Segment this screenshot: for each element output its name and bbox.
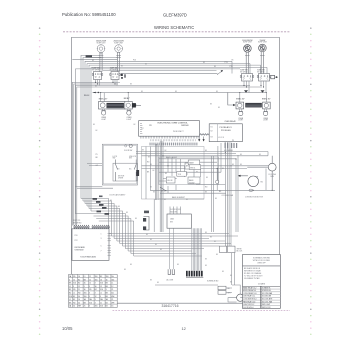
svg-text:L1: L1 — [73, 292, 75, 294]
door latch label — [110, 194, 127, 197]
svg-text:316: 316 — [100, 283, 103, 285]
svg-text:10/05: 10/05 — [62, 326, 73, 331]
svg-text:21: 21 — [84, 306, 86, 308]
svg-text:BK: BK — [203, 62, 205, 64]
broil element box — [185, 163, 194, 169]
warmer labels left — [99, 98, 130, 100]
U1 pin row — [140, 136, 198, 141]
svg-text:BK: BK — [92, 60, 94, 62]
svg-text:316: 316 — [73, 283, 76, 285]
svg-text:316: 316 — [95, 276, 98, 278]
junction dots — [162, 152, 272, 191]
ribbon zigzag — [200, 134, 232, 136]
header publication number — [62, 12, 116, 17]
svg-text:CODES: CODES — [258, 283, 266, 285]
svg-text:BK: BK — [222, 271, 224, 273]
svg-text:3: 3 — [89, 296, 90, 298]
svg-text:16: 16 — [111, 306, 113, 308]
left fold dotted line — [39, 27, 41, 335]
svg-text:L1: L1 — [84, 276, 86, 278]
svg-text:BK: BK — [240, 154, 242, 156]
svg-text:3400W: 3400W — [189, 182, 195, 184]
svg-text:3: 3 — [95, 299, 96, 301]
svg-text:3: 3 — [84, 286, 85, 288]
svg-text:SW: SW — [170, 222, 173, 224]
relay board U2 — [209, 120, 242, 142]
svg-text:16: 16 — [100, 279, 102, 281]
svg-text:3: 3 — [89, 292, 90, 294]
thermostat TOD — [177, 172, 187, 177]
svg-text:BK: BK — [130, 84, 132, 86]
svg-text:21: 21 — [78, 289, 80, 291]
svg-text:LIGHT SW 2-12: LIGHT SW 2-12 — [243, 304, 254, 306]
relay K1 — [188, 160, 200, 165]
wire labels on bus — [133, 59, 233, 68]
infinite switch S4 — [257, 70, 271, 82]
svg-text:16: 16 — [106, 279, 108, 281]
warmer element E4 — [263, 102, 271, 109]
svg-text:SURF UNIT: SURF UNIT — [243, 41, 252, 43]
svg-text:BK: BK — [150, 239, 152, 241]
oven circuit wires — [136, 141, 275, 232]
svg-text:316417716: 316417716 — [162, 304, 179, 308]
svg-text:KEYBOARD: KEYBOARD — [75, 246, 86, 249]
bake element box — [188, 177, 200, 184]
svg-text:SURF SW: SURF SW — [92, 68, 100, 70]
oven circuit box — [142, 147, 205, 200]
svg-text:B2: B2 — [78, 283, 80, 285]
oven circuit inner box — [159, 157, 219, 185]
svg-text:BK: BK — [232, 164, 234, 166]
svg-text:12: 12 — [89, 276, 91, 278]
wire arrow into E3 — [228, 93, 236, 107]
svg-text:K5 LOCK MTR: K5 LOCK MTR — [262, 298, 273, 300]
svg-text:P20: P20 — [75, 235, 78, 237]
latch motor dark blob — [136, 170, 139, 176]
svg-text:12: 12 — [182, 326, 186, 331]
svg-text:LIGHT: LIGHT — [126, 119, 131, 121]
svg-text:K1: K1 — [211, 127, 213, 129]
svg-text:BK: BK — [175, 91, 177, 93]
oven circuit labels — [147, 157, 185, 199]
svg-text:OVEN RELAY: OVEN RELAY — [224, 120, 236, 123]
svg-text:P10 RELAY K1: P10 RELAY K1 — [220, 126, 232, 129]
svg-text:BK: BK — [232, 60, 234, 62]
wire arrow from E2 — [134, 104, 141, 106]
svg-text:BK: BK — [134, 124, 136, 126]
oven box extra horizontals — [159, 162, 217, 181]
svg-text:K2 BROIL EL: K2 BROIL EL — [262, 290, 271, 292]
svg-text:12: 12 — [111, 286, 113, 288]
svg-text:K3: K3 — [211, 137, 213, 139]
svg-text:16: 16 — [78, 299, 80, 301]
terminal block boxes — [220, 246, 243, 253]
svg-text:SURF UNIT: SURF UNIT — [114, 42, 123, 44]
svg-text:3: 3 — [73, 286, 74, 288]
svg-text:MOTOR: MOTOR — [171, 211, 178, 213]
svg-text:BROIL 3600W: BROIL 3600W — [166, 157, 177, 159]
svg-text:P13: P13 — [225, 62, 228, 64]
svg-text:P15: P15 — [230, 66, 233, 68]
svg-text:BK: BK — [150, 187, 152, 189]
svg-text:BK: BK — [214, 66, 216, 68]
right fold dotted line — [310, 27, 312, 335]
svg-text:L1: L1 — [100, 292, 102, 294]
svg-text:7: 7 — [101, 250, 102, 252]
svg-text:LIGHT: LIGHT — [101, 119, 106, 121]
svg-text:P11 BK-WH: P11 BK-WH — [221, 130, 231, 132]
svg-text:12: 12 — [89, 283, 91, 285]
svg-text:B2: B2 — [73, 296, 75, 298]
svg-text:BK: BK — [153, 191, 155, 193]
svg-text:TOUCH PANEL ASM: TOUCH PANEL ASM — [80, 255, 96, 258]
svg-text:DOOR SW 4-6: DOOR SW 4-6 — [243, 307, 253, 309]
svg-text:BK: BK — [205, 150, 207, 152]
svg-text:BK: BK — [186, 199, 188, 201]
svg-text:BK: BK — [121, 66, 123, 68]
lock motor cluster — [155, 253, 244, 302]
relay K2 — [189, 165, 201, 170]
svg-text:BK: BK — [165, 173, 167, 175]
svg-text:BK: BK — [124, 269, 126, 271]
svg-text:316: 316 — [111, 279, 114, 281]
U1 output arrows — [198, 137, 205, 142]
connector row B — [92, 225, 110, 229]
svg-text:316: 316 — [84, 292, 87, 294]
svg-text:BK: BK — [96, 130, 98, 132]
latch side labels — [96, 154, 99, 167]
svg-text:BK: BK — [157, 282, 159, 284]
surface element P2 — [113, 41, 123, 72]
oven lamp L2 — [126, 109, 132, 121]
svg-text:54: 54 — [78, 296, 80, 298]
svg-text:B2: B2 — [69, 292, 71, 294]
svg-text:BK: BK — [230, 282, 232, 284]
wire L1 bus — [72, 54, 117, 201]
wire lower bus — [72, 82, 262, 225]
svg-text:BK: BK — [135, 218, 137, 220]
svg-text:B2: B2 — [78, 279, 80, 281]
svg-text:LIGHT: LIGHT — [238, 120, 243, 122]
svg-text:BK: BK — [146, 234, 148, 236]
legend table — [243, 286, 281, 308]
door lock motor box — [167, 207, 191, 229]
oven box inner wires — [168, 157, 201, 193]
svg-text:BK: BK — [148, 157, 150, 159]
stem plug ticks — [99, 55, 265, 57]
svg-text:BK: BK — [118, 206, 120, 208]
parts table — [69, 274, 118, 307]
svg-text:316: 316 — [95, 279, 98, 281]
svg-text:12: 12 — [89, 279, 91, 281]
svg-text:12: 12 — [100, 286, 102, 288]
svg-text:BK: BK — [222, 168, 224, 170]
svg-text:BK: BK — [205, 232, 207, 234]
svg-text:BK: BK — [93, 124, 95, 126]
svg-text:L1: L1 — [69, 299, 71, 301]
svg-text:21: 21 — [111, 289, 113, 291]
svg-text:P22: P22 — [75, 240, 78, 242]
footer date — [62, 326, 73, 331]
cooling fan motor M1 — [268, 156, 277, 191]
svg-text:Publication No: 5995451100: Publication No: 5995451100 — [62, 12, 116, 17]
svg-text:DRIVE: DRIVE — [118, 177, 124, 179]
bottom dashed separator — [113, 310, 291, 312]
relay pin labels — [224, 143, 237, 152]
svg-text:3: 3 — [89, 306, 90, 308]
svg-text:SURF UNIT: SURF UNIT — [258, 41, 267, 43]
svg-text:16: 16 — [84, 289, 86, 291]
warmer labels right — [236, 98, 271, 100]
svg-text:BK: BK — [210, 103, 212, 105]
svg-text:SURF SW: SURF SW — [240, 70, 248, 72]
svg-text:12: 12 — [95, 296, 97, 298]
svg-text:BK: BK — [145, 64, 147, 66]
svg-text:SURF SW: SURF SW — [110, 68, 118, 70]
svg-text:BK: BK — [231, 150, 233, 152]
svg-text:L1 L2 N: L1 L2 N — [218, 137, 225, 139]
svg-text:BK: BK — [107, 226, 109, 228]
svg-text:316: 316 — [100, 306, 103, 308]
svg-text:BK: BK — [165, 150, 167, 152]
svg-text:B2: B2 — [100, 276, 102, 278]
svg-text:SW: SW — [129, 158, 132, 160]
svg-text:316: 316 — [106, 276, 109, 278]
connector row A — [74, 225, 90, 229]
svg-text:ESEC 20*: ESEC 20* — [99, 99, 108, 101]
svg-text:SURF UNIT: SURF UNIT — [97, 42, 106, 44]
infinite switch S2 — [110, 68, 121, 80]
latch switch labels — [113, 156, 137, 160]
misc wire labels — [84, 60, 261, 285]
svg-text:BK WH: BK WH — [161, 191, 167, 193]
svg-text:BK: BK — [142, 150, 144, 152]
part number — [162, 304, 179, 308]
svg-text:ESEC 30*: ESEC 30* — [236, 98, 245, 100]
wire staircase bundle — [76, 199, 129, 252]
svg-text:HI-LIM: HI-LIM — [167, 180, 173, 182]
latch inner box — [113, 160, 137, 182]
svg-text:BK: BK — [110, 200, 112, 202]
warmer element E1 — [99, 102, 125, 110]
svg-text:BK: BK — [196, 172, 198, 174]
svg-text:ELECTRONIC OVEN CONTROL: ELECTRONIC OVEN CONTROL — [158, 122, 189, 124]
switch S2 taps — [112, 80, 117, 86]
svg-text:BK: BK — [130, 264, 132, 266]
connector cluster right of S2 — [121, 74, 126, 79]
svg-text:WIRING SCHEMATIC: WIRING SCHEMATIC — [154, 25, 194, 30]
svg-text:P8: P8 — [149, 125, 151, 127]
U1 pin labels row — [150, 143, 198, 146]
svg-text:1: 1 — [101, 234, 102, 236]
oven lamp L3 — [238, 109, 244, 122]
svg-text:BK: BK — [210, 237, 212, 239]
svg-text:BK: BK — [160, 249, 162, 251]
svg-text:BAKE ELEMENT: BAKE ELEMENT — [172, 196, 185, 199]
svg-text:BK: BK — [126, 212, 128, 214]
svg-text:BK: BK — [205, 192, 207, 194]
svg-text:316: 316 — [84, 296, 87, 298]
svg-text:SW1 LIGHT: SW1 LIGHT — [262, 304, 270, 306]
schematic frame — [71, 38, 279, 309]
svg-text:CAM: CAM — [170, 217, 174, 220]
svg-text:L1: L1 — [111, 283, 113, 285]
title WIRING SCHEMATIC — [154, 25, 194, 30]
svg-text:3: 3 — [95, 283, 96, 285]
svg-text:BK: BK — [95, 86, 97, 88]
svg-text:BK: BK — [153, 170, 155, 172]
surface element P4 — [258, 40, 267, 73]
svg-text:GN GREEN TN TAN: GN GREEN TN TAN — [244, 277, 260, 280]
staircase knot labels — [93, 196, 110, 215]
svg-text:316: 316 — [95, 306, 98, 308]
svg-text:B2: B2 — [69, 289, 71, 291]
svg-text:ESEC 30*: ESEC 30* — [262, 98, 271, 100]
svg-text:BK: BK — [215, 198, 217, 200]
keyboard panel box — [72, 229, 109, 260]
svg-text:BK WH RD: BK WH RD — [73, 223, 82, 225]
svg-text:K4 DLB LINE: K4 DLB LINE — [262, 296, 271, 298]
svg-text:BK: BK — [230, 275, 232, 277]
switch S3 taps — [243, 81, 249, 93]
convection motor M2 — [222, 175, 264, 199]
svg-text:BK: BK — [216, 254, 218, 256]
svg-text:BK: BK — [155, 244, 157, 246]
svg-text:DOOR SW: DOOR SW — [124, 150, 133, 152]
keyboard pin stubs — [101, 234, 111, 256]
surface element P3 — [242, 40, 252, 73]
svg-text:BK: BK — [218, 107, 220, 109]
hi-limit box — [166, 177, 175, 183]
wire fan feeds — [247, 152, 268, 191]
svg-text:21: 21 — [100, 302, 102, 304]
svg-text:SW2 DOOR: SW2 DOOR — [262, 307, 271, 309]
connector J1 — [271, 75, 278, 78]
svg-text:BK/BL*: BK/BL* — [124, 98, 130, 100]
door switch — [124, 144, 133, 152]
blade switch — [160, 187, 166, 191]
svg-text:GLEFM397D: GLEFM397D — [163, 13, 187, 18]
svg-text:BK: BK — [240, 164, 242, 166]
svg-text:BK: BK — [141, 91, 143, 93]
svg-text:B2: B2 — [106, 306, 108, 308]
dark connector block — [186, 271, 203, 277]
svg-text:L1: L1 — [69, 286, 71, 288]
svg-text:P9: P9 — [232, 140, 234, 142]
svg-text:DOOR LATCH ASSY: DOOR LATCH ASSY — [110, 194, 127, 197]
svg-text:LOCK MOTOR 6-3: LOCK MOTOR 6-3 — [243, 298, 256, 300]
svg-text:SURFACE IND: SURFACE IND — [207, 279, 219, 282]
svg-text:LIGHT: LIGHT — [263, 120, 268, 122]
svg-text:316: 316 — [89, 302, 92, 304]
svg-text:BK: BK — [259, 154, 261, 156]
wire long pair to right — [103, 70, 223, 75]
oven bottom text rows — [161, 187, 222, 194]
oven lamp L4 — [263, 109, 269, 122]
svg-text:316: 316 — [100, 289, 103, 291]
svg-text:BK: BK — [205, 259, 207, 261]
svg-text:BK: BK — [84, 95, 86, 97]
svg-text:BK: BK — [164, 199, 166, 201]
svg-text:12: 12 — [78, 286, 80, 288]
oven lamp L1 — [101, 109, 107, 121]
svg-text:16: 16 — [95, 286, 97, 288]
svg-text:P4 BK WH P7: P4 BK WH P7 — [173, 131, 184, 133]
svg-text:3: 3 — [100, 296, 101, 298]
svg-text:16: 16 — [78, 276, 80, 278]
svg-text:3: 3 — [106, 289, 107, 291]
wire bus to right switches — [76, 61, 268, 213]
power connector block — [143, 211, 149, 230]
svg-text:54: 54 — [73, 306, 75, 308]
svg-text:P5: P5 — [96, 154, 98, 156]
wire right vertical drop — [225, 142, 238, 247]
svg-text:BK: BK — [150, 280, 152, 282]
top dashed separator — [63, 31, 290, 33]
svg-text:K2: K2 — [211, 131, 213, 133]
svg-text:SURF SW: SURF SW — [257, 70, 265, 72]
svg-text:BK: BK — [177, 264, 179, 266]
svg-text:COOLING FAN: COOLING FAN — [222, 194, 234, 197]
wire bundle below door lock — [169, 228, 201, 270]
AC line brackets — [167, 269, 220, 282]
svg-text:BK: BK — [214, 241, 216, 243]
svg-text:21: 21 — [111, 299, 113, 301]
switch S4 taps — [260, 81, 266, 93]
svg-text:P13: P13 — [133, 59, 136, 61]
svg-text:BK: BK — [150, 164, 152, 166]
svg-text:AC LINE: AC LINE — [167, 278, 174, 281]
infinite switch S1 — [92, 68, 103, 80]
surface element P1 — [96, 41, 106, 72]
wire stubs to warmer boxes — [100, 92, 267, 102]
svg-text:3: 3 — [101, 238, 102, 240]
wires latch to left bus — [75, 164, 113, 189]
wire mid horizontal — [93, 90, 267, 93]
thermal fuse F1 — [216, 169, 219, 191]
svg-text:3: 3 — [95, 302, 96, 304]
svg-text:B2: B2 — [106, 302, 108, 304]
legend notes box — [243, 255, 281, 309]
svg-text:B2: B2 — [73, 299, 75, 301]
svg-text:54: 54 — [78, 302, 80, 304]
svg-text:BLOCK: BLOCK — [237, 251, 244, 253]
switch S1 taps — [95, 80, 100, 86]
svg-text:OVEN OFF: OVEN OFF — [257, 263, 266, 265]
svg-text:16: 16 — [84, 283, 86, 285]
warmer element E2 — [125, 102, 136, 110]
svg-text:3: 3 — [95, 292, 96, 294]
footer page number — [182, 326, 186, 331]
warmer element E3 — [236, 102, 262, 109]
svg-text:BK: BK — [205, 265, 207, 267]
svg-text:B2: B2 — [95, 289, 97, 291]
op-amp U1 electronic oven control — [139, 121, 200, 137]
svg-text:BK: BK — [216, 91, 218, 93]
door latch assembly box — [102, 144, 137, 185]
infinite switch S3 — [240, 70, 254, 82]
svg-text:BROIL: BROIL — [190, 167, 195, 169]
svg-text:3: 3 — [89, 286, 90, 288]
svg-text:3: 3 — [69, 279, 70, 281]
terminal label block on bus — [86, 55, 101, 57]
wire bundle fanout — [96, 219, 238, 257]
svg-text:SW: SW — [113, 158, 116, 160]
header model number — [163, 13, 187, 18]
svg-text:DISPLAY: DISPLAY — [181, 124, 189, 127]
svg-text:CONVECTION MOTOR: CONVECTION MOTOR — [245, 196, 264, 198]
svg-text:BK: BK — [206, 177, 208, 179]
